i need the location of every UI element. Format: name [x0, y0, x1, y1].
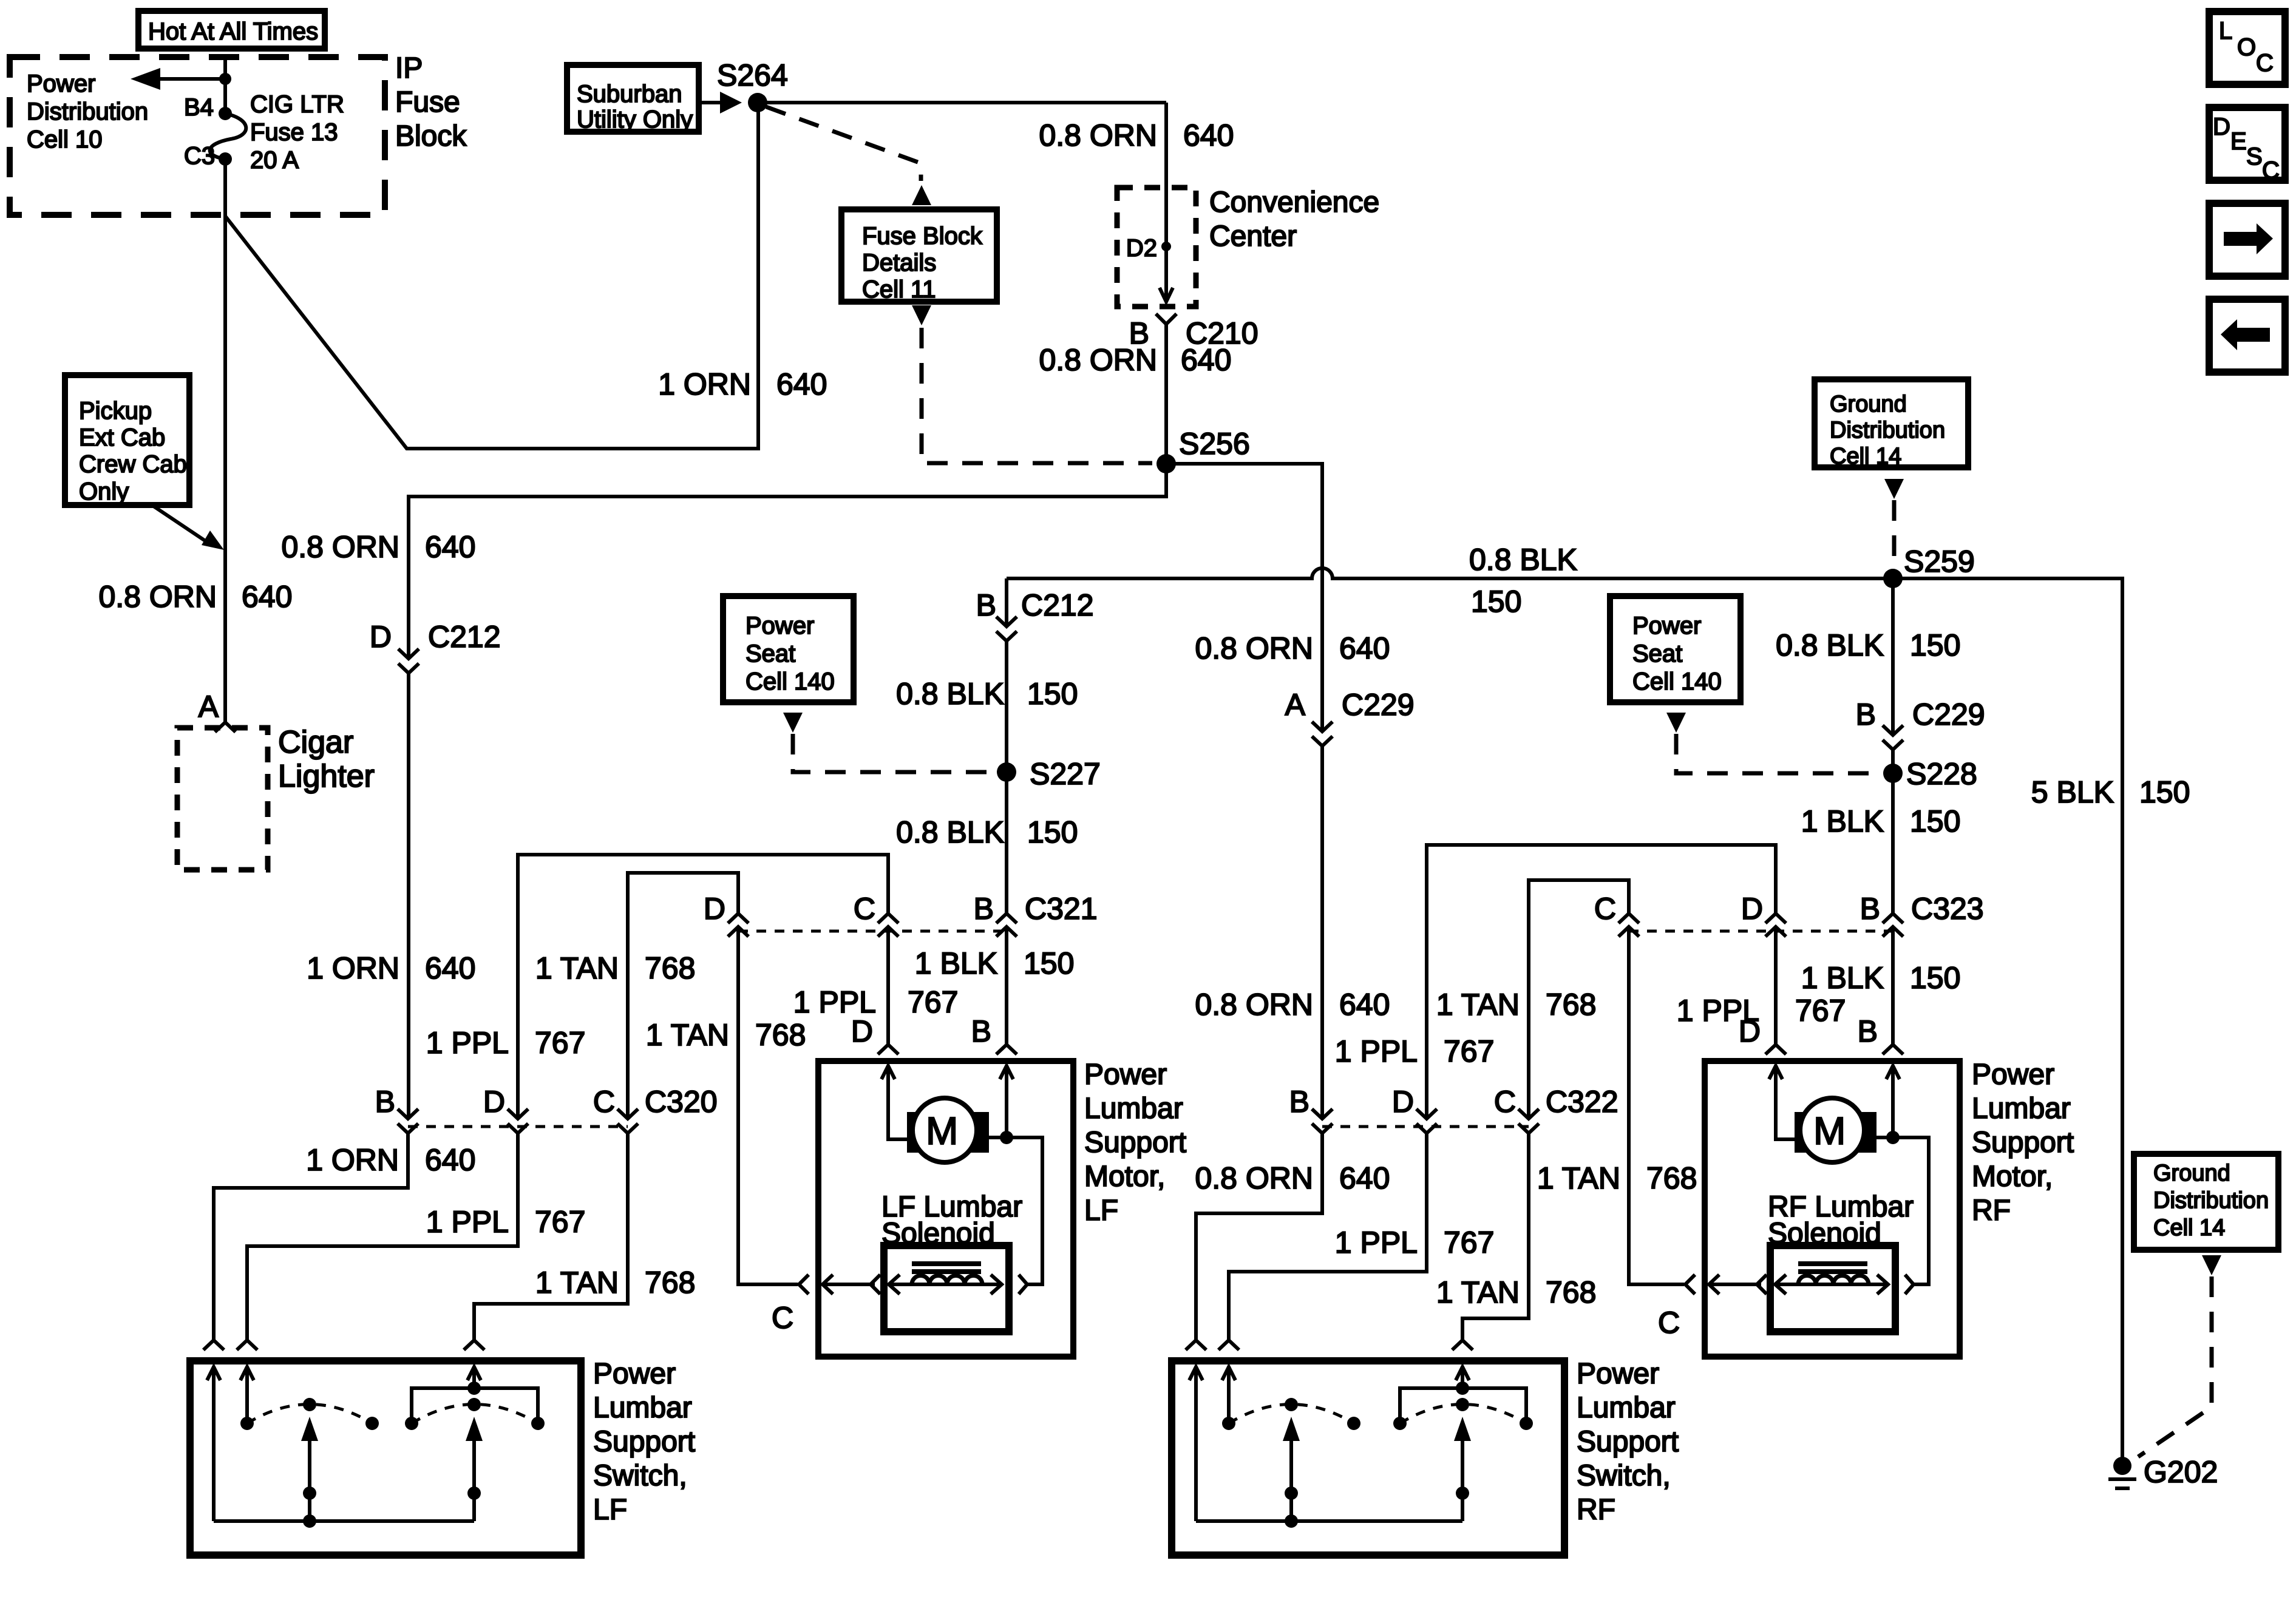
- wire pointer arrow to cigar wire: [154, 506, 207, 542]
- svg-text:768: 768: [1646, 1161, 1697, 1195]
- svg-text:Crew Cab: Crew Cab: [79, 451, 187, 478]
- label 0.8 BLK 150: [1776, 628, 1960, 662]
- wire S264 to convenience center: [758, 101, 1166, 104]
- wire motor B to solenoid right side: [987, 1137, 1042, 1284]
- box left arrow: [2209, 299, 2285, 372]
- svg-text:0.8 ORN: 0.8 ORN: [1039, 118, 1157, 152]
- svg-text:20 A: 20 A: [250, 147, 299, 174]
- svg-text:1 ORN: 1 ORN: [658, 367, 751, 401]
- svg-text:Support: Support: [1577, 1426, 1679, 1458]
- svg-text:B4: B4: [184, 94, 214, 121]
- solenoid core lines: [912, 1264, 981, 1272]
- svg-text:1 TAN: 1 TAN: [535, 1266, 619, 1300]
- wire dashed connector line C322: [1322, 1125, 1529, 1128]
- svg-text:C322: C322: [1546, 1085, 1618, 1119]
- svg-text:150: 150: [1027, 677, 1078, 711]
- node D2: [1161, 242, 1171, 251]
- svg-text:767: 767: [535, 1205, 585, 1239]
- connector motor RF pin D: [1765, 1045, 1786, 1054]
- svg-text:Seat: Seat: [1632, 640, 1682, 667]
- svg-text:767: 767: [1444, 1225, 1494, 1259]
- svg-text:768: 768: [1546, 988, 1596, 1022]
- solenoid core lines: [1798, 1264, 1867, 1272]
- connector C212 pin D: [398, 649, 419, 673]
- svg-text:Power: Power: [1577, 1358, 1659, 1390]
- connector C229 pin A: [1312, 722, 1333, 746]
- pin D entry arrow: [1769, 1066, 1782, 1079]
- connector C322 pin D: [1416, 1109, 1437, 1133]
- svg-text:LF: LF: [593, 1494, 627, 1526]
- svg-text:Cell 14: Cell 14: [1830, 444, 1901, 469]
- svg-text:Cell 140: Cell 140: [1632, 668, 1722, 695]
- svg-text:B: B: [974, 892, 994, 926]
- svg-text:640: 640: [1183, 118, 1234, 152]
- svg-text:1 TAN: 1 TAN: [1537, 1161, 1620, 1195]
- svg-text:Distribution: Distribution: [27, 98, 148, 125]
- left wiper arrow: [308, 1437, 311, 1493]
- pin D entry arrow: [881, 1066, 895, 1079]
- svg-text:B: B: [976, 588, 996, 622]
- wire dashed connector line C320: [408, 1125, 628, 1128]
- connector switch LF T3: [464, 1340, 484, 1350]
- label 1 ORN 640 (switch): [306, 1143, 475, 1177]
- connector switch RF T3: [1452, 1340, 1473, 1350]
- svg-text:Pickup: Pickup: [79, 398, 152, 424]
- svg-text:C: C: [854, 892, 875, 926]
- svg-text:640: 640: [1181, 343, 1231, 377]
- svg-text:B: B: [1856, 697, 1876, 731]
- svg-text:0.8 ORN: 0.8 ORN: [1195, 631, 1313, 665]
- connector switch RF T2: [1218, 1340, 1239, 1350]
- connector C229 pin B: [1883, 725, 1903, 750]
- svg-text:768: 768: [645, 1266, 695, 1300]
- label 1 BLK 150 (C321-B): [915, 946, 1075, 980]
- node reference arrow down (left seat): [783, 713, 803, 733]
- svg-text:1 TAN: 1 TAN: [1436, 988, 1520, 1022]
- svg-text:B: B: [1289, 1085, 1309, 1119]
- svg-text:E: E: [2230, 128, 2247, 155]
- connector C322 pin C: [1518, 1109, 1539, 1133]
- svg-text:Power: Power: [1632, 612, 1701, 639]
- svg-text:5 BLK: 5 BLK: [2031, 775, 2114, 809]
- svg-text:C: C: [593, 1085, 615, 1119]
- wire C323-D down to RF motor pin D: [1774, 927, 1778, 1045]
- wire C322-C down to RF switch T3: [1462, 1133, 1529, 1340]
- pin T2 arrow and wire to contact: [1222, 1367, 1235, 1380]
- svg-text:RF: RF: [1972, 1195, 2011, 1227]
- wire motor B to solenoid right side: [1874, 1137, 1929, 1284]
- node S228: [1883, 764, 1903, 783]
- node C3: [219, 152, 232, 166]
- box DESC: [2209, 107, 2285, 184]
- label 1 TAN 768 (C321-D): [646, 1018, 806, 1052]
- wire C322-D up over to C323-D: [1427, 845, 1776, 1119]
- svg-text:D: D: [2213, 114, 2230, 140]
- solenoid coil: [912, 1276, 982, 1285]
- wire C321-B down to LF motor pin B: [1005, 927, 1008, 1045]
- svg-text:Support: Support: [1972, 1127, 2074, 1159]
- connector C212 pin B: [996, 617, 1017, 641]
- svg-text:0.8 ORN: 0.8 ORN: [98, 580, 217, 614]
- svg-text:C: C: [1594, 892, 1616, 926]
- label fuse value: [250, 91, 344, 174]
- box Power Lumbar Support Motor RF: [1705, 1061, 1960, 1357]
- svg-text:D: D: [851, 1014, 873, 1048]
- svg-text:Block: Block: [395, 120, 467, 152]
- connector C320 pin D: [508, 1109, 528, 1133]
- svg-text:1 TAN: 1 TAN: [1436, 1275, 1520, 1309]
- svg-text:Switch,: Switch,: [1577, 1460, 1671, 1492]
- label 0.8 ORN 640 (RF switch): [1195, 1161, 1390, 1195]
- svg-text:B: B: [1860, 892, 1880, 926]
- connector C323 pin D: [1765, 914, 1786, 937]
- box right arrow: [2209, 203, 2285, 276]
- svg-text:LF: LF: [1084, 1195, 1118, 1227]
- svg-text:640: 640: [425, 530, 475, 564]
- svg-text:S228: S228: [1906, 757, 1977, 791]
- box Fuse Block Details Cell 11: [841, 209, 997, 303]
- label 1 PPL 767 (RF switch): [1335, 1225, 1495, 1259]
- svg-text:Lumbar: Lumbar: [1577, 1392, 1676, 1424]
- svg-text:D: D: [1392, 1085, 1414, 1119]
- label IP Fuse Block: [395, 52, 467, 152]
- svg-text:M: M: [1813, 1109, 1846, 1153]
- svg-text:D: D: [704, 892, 725, 926]
- svg-text:Power: Power: [1972, 1059, 2054, 1091]
- RF solenoid outline: [1770, 1246, 1895, 1332]
- label 1 ORN 640: [658, 367, 827, 401]
- svg-text:Hot At All Times: Hot At All Times: [148, 18, 318, 45]
- svg-text:Distribution: Distribution: [2153, 1188, 2269, 1213]
- label 1 TAN 768 (switch): [535, 1266, 696, 1300]
- svg-text:767: 767: [1444, 1034, 1494, 1068]
- svg-text:Support: Support: [593, 1426, 695, 1458]
- wire switch common bus: [214, 1519, 474, 1523]
- svg-text:C323: C323: [1911, 892, 1984, 926]
- svg-text:C212: C212: [1021, 588, 1094, 622]
- wire C322-C up over to C323-C: [1529, 880, 1629, 1119]
- solenoid coil: [1798, 1276, 1869, 1285]
- svg-text:1 ORN: 1 ORN: [306, 1143, 399, 1177]
- wire arrow into S264: [699, 101, 722, 104]
- wire C323-B down to RF motor pin B: [1891, 927, 1895, 1045]
- svg-text:C: C: [1494, 1085, 1516, 1119]
- wire down into convenience center D2: [1164, 103, 1168, 302]
- connector C320 pin C: [617, 1109, 638, 1133]
- svg-text:Lumbar: Lumbar: [593, 1392, 692, 1424]
- label 0.8 ORN 640: [1039, 118, 1234, 152]
- wire C229-B through S228 to C323-B: [1891, 750, 1895, 914]
- svg-text:D: D: [1741, 892, 1763, 926]
- label Power Lumbar Support Switch RF: [1577, 1358, 1679, 1526]
- label Cigar Lighter: [278, 725, 375, 794]
- wire S259 to C229 pin B: [1891, 578, 1895, 735]
- LF solenoid outline: [884, 1246, 1009, 1332]
- svg-text:640: 640: [242, 580, 292, 614]
- svg-text:RF: RF: [1577, 1494, 1615, 1526]
- svg-text:IP: IP: [395, 52, 423, 84]
- label 1 PPL 767 (C320-D upper): [426, 1026, 586, 1060]
- svg-text:A: A: [1285, 688, 1306, 722]
- wire dashed connector line C321: [738, 930, 1007, 933]
- svg-text:Ext Cab: Ext Cab: [79, 424, 165, 451]
- IP fuse block dashed outline: [10, 57, 385, 215]
- svg-text:767: 767: [535, 1026, 585, 1060]
- label 1 TAN 768 (C322-C upper): [1436, 988, 1597, 1022]
- svg-text:0.8 ORN: 0.8 ORN: [1195, 988, 1313, 1022]
- svg-text:S256: S256: [1179, 427, 1250, 461]
- node right rocker wiper point: [1456, 1398, 1469, 1411]
- wire dashed connector line C323: [1629, 930, 1893, 933]
- svg-text:Convenience: Convenience: [1209, 186, 1379, 219]
- label 1 TAN 768 (C320-C upper): [535, 951, 696, 985]
- svg-text:640: 640: [425, 1143, 475, 1177]
- label 1 PPL 767 (switch): [426, 1205, 586, 1239]
- wire C320-C up over to C321-D: [628, 873, 738, 1119]
- svg-text:Cell 140: Cell 140: [746, 668, 835, 695]
- wire dashed reference to S227: [793, 734, 994, 772]
- label 0.8 BLK 150: [896, 815, 1078, 849]
- svg-text:Lumbar: Lumbar: [1972, 1093, 2071, 1125]
- wire S256 to C212 pin D: [409, 464, 1166, 659]
- solenoid plunger double arrow: [1776, 1283, 1887, 1286]
- left rocker dashed arc: [1229, 1405, 1354, 1424]
- svg-text:D2: D2: [1126, 235, 1157, 262]
- right wiper arrow: [472, 1437, 476, 1493]
- connector solenoid left half-arrows: [799, 1275, 809, 1294]
- box Power Lumbar Support Switch RF: [1172, 1361, 1564, 1555]
- svg-text:640: 640: [1339, 631, 1390, 665]
- box Pickup Ext Cab Crew Cab Only: [65, 375, 189, 505]
- label 1 TAN 768 (C323-C): [1537, 1161, 1697, 1195]
- node reference arrow down: [912, 305, 931, 325]
- wire C323-C down to RF solenoid: [1629, 927, 1684, 1284]
- svg-text:Power: Power: [746, 612, 814, 639]
- label 1 PPL 767 (C321-C): [793, 985, 959, 1019]
- svg-text:1 PPL: 1 PPL: [1335, 1225, 1418, 1259]
- svg-text:C212: C212: [428, 620, 501, 654]
- svg-text:Power: Power: [593, 1358, 676, 1390]
- wire C321-C down to LF motor pin D: [886, 927, 890, 1045]
- node right rocker wiper point: [467, 1398, 481, 1411]
- svg-text:C229: C229: [1912, 697, 1985, 731]
- label Power Distribution Cell 10: [27, 70, 148, 153]
- svg-text:1 BLK: 1 BLK: [915, 946, 997, 980]
- solenoid plunger double arrow: [890, 1283, 1000, 1286]
- node right rocker contacts: [1393, 1417, 1407, 1430]
- label 1 PPL 767 (C322-D upper): [1335, 1034, 1495, 1068]
- svg-text:S: S: [2246, 143, 2263, 170]
- connector C323 pin C: [1618, 914, 1639, 937]
- node reference arrow down to S259: [1884, 479, 1904, 499]
- pin T1 arrow and feed wire: [1189, 1367, 1203, 1380]
- svg-text:150: 150: [1910, 628, 1960, 662]
- svg-text:A: A: [199, 690, 219, 724]
- label 1 TAN 768 (RF switch): [1436, 1275, 1597, 1309]
- svg-text:0.8 BLK: 0.8 BLK: [1469, 543, 1577, 577]
- box LOC: [2209, 12, 2285, 84]
- label 1 PPL 767 (C323-D): [1677, 994, 1846, 1028]
- connector C322 pin B: [1312, 1109, 1333, 1133]
- node feed junction: [219, 73, 231, 85]
- svg-text:150: 150: [1910, 961, 1960, 995]
- svg-text:1 PPL: 1 PPL: [426, 1026, 509, 1060]
- label 0.8 ORN 640: [1195, 631, 1390, 665]
- wire C320-B down to LF switch T1: [214, 1133, 408, 1340]
- svg-text:L: L: [2219, 18, 2232, 44]
- svg-text:C: C: [1658, 1306, 1680, 1340]
- svg-text:0.8 BLK: 0.8 BLK: [896, 677, 1004, 711]
- label RF Lumbar Solenoid: [1768, 1191, 1914, 1250]
- wire C320-D up over to C321-C: [518, 855, 888, 1119]
- svg-text:640: 640: [425, 951, 475, 985]
- svg-text:0.8 ORN: 0.8 ORN: [1039, 343, 1157, 377]
- connector C321 pin C: [878, 914, 898, 937]
- svg-text:Suburban: Suburban: [577, 81, 682, 107]
- svg-text:767: 767: [1795, 994, 1846, 1028]
- svg-text:Cell 10: Cell 10: [27, 126, 103, 153]
- pin T3 arrow and wire to bridge: [467, 1367, 481, 1380]
- svg-text:0.8 BLK: 0.8 BLK: [896, 815, 1004, 849]
- svg-text:Only: Only: [79, 478, 129, 505]
- right wiper arrow: [1461, 1437, 1464, 1493]
- label Power Lumbar Support Motor LF: [1084, 1059, 1186, 1227]
- svg-text:1 TAN: 1 TAN: [646, 1018, 729, 1052]
- fuse F13 CIG LTR 20A: [210, 114, 246, 159]
- connector switch LF T1: [203, 1340, 224, 1350]
- connector C320 pin B: [398, 1109, 418, 1133]
- wire C212-D down to C320-B: [407, 673, 410, 1119]
- wire C229-A down to C322-B: [1320, 746, 1324, 1119]
- wire C210 to S256: [1164, 324, 1168, 464]
- label Power Lumbar Support Switch LF: [593, 1358, 695, 1526]
- svg-text:C: C: [2256, 50, 2274, 76]
- svg-text:768: 768: [1546, 1275, 1596, 1309]
- connector switch LF T2: [237, 1340, 257, 1350]
- svg-text:C229: C229: [1342, 688, 1415, 722]
- pin T2 arrow and wire to contact: [240, 1367, 254, 1380]
- connector solenoid right half-arrow: [1019, 1275, 1027, 1294]
- svg-text:C: C: [2262, 157, 2280, 184]
- node reference arrow up: [912, 185, 931, 205]
- svg-text:Center: Center: [1209, 220, 1297, 253]
- svg-text:Fuse: Fuse: [395, 86, 460, 118]
- svg-text:S227: S227: [1030, 757, 1101, 791]
- label 1 ORN 640: [307, 951, 475, 985]
- wire fuse output down to cigar lighter: [223, 159, 227, 722]
- svg-text:150: 150: [1024, 946, 1074, 980]
- svg-text:Fuse 13: Fuse 13: [250, 119, 338, 146]
- wire ground bus left end to C212 pin B: [1005, 578, 1008, 626]
- node S259: [1883, 569, 1903, 588]
- pin B entry arrow: [1000, 1066, 1013, 1079]
- node right rocker contacts: [405, 1417, 418, 1430]
- svg-text:Seat: Seat: [746, 640, 795, 667]
- wire C322-D down to RF switch T2: [1229, 1133, 1427, 1340]
- node reference arrow down (right seat): [1666, 713, 1686, 733]
- box Power Lumbar Support Motor LF: [818, 1061, 1073, 1357]
- svg-text:Utility Only: Utility Only: [577, 106, 693, 133]
- box Suburban Utility Only: [567, 65, 699, 133]
- svg-text:M: M: [926, 1109, 958, 1153]
- connector solenoid right half-arrow: [1905, 1275, 1914, 1294]
- cigar lighter dashed outline: [177, 728, 268, 870]
- wire dashed reference to G202: [2138, 1276, 2212, 1457]
- svg-text:1 ORN: 1 ORN: [307, 951, 399, 985]
- svg-text:1 PPL: 1 PPL: [426, 1205, 509, 1239]
- box Power Seat Cell 140 (left): [723, 596, 854, 702]
- label 0.8 ORN 640: [98, 580, 292, 614]
- connector C321 pin D: [728, 914, 749, 937]
- connector motor RF pin B: [1883, 1045, 1903, 1054]
- connector C323 pin B: [1883, 914, 1903, 937]
- node reference arrow down to G202: [2202, 1255, 2221, 1275]
- label 1 BLK 150 (C323-B): [1801, 961, 1961, 995]
- svg-text:1 BLK: 1 BLK: [1801, 804, 1884, 838]
- wire S256 to C229 pin A: [1166, 464, 1322, 731]
- svg-text:0.8 ORN: 0.8 ORN: [281, 530, 399, 564]
- pin T1 arrow and feed wire: [207, 1367, 220, 1380]
- node S264: [748, 93, 767, 112]
- svg-text:1 BLK: 1 BLK: [1801, 961, 1884, 995]
- svg-text:Cell 14: Cell 14: [2153, 1215, 2225, 1241]
- svg-text:768: 768: [645, 951, 695, 985]
- svg-text:Power: Power: [1084, 1059, 1167, 1091]
- svg-text:Details: Details: [862, 249, 936, 276]
- node S227: [997, 762, 1016, 782]
- svg-text:1 PPL: 1 PPL: [1335, 1034, 1418, 1068]
- svg-text:768: 768: [755, 1018, 806, 1052]
- svg-text:B: B: [971, 1014, 991, 1048]
- svg-text:Ground: Ground: [1830, 392, 1907, 417]
- node motor-solenoid junction: [1886, 1131, 1900, 1144]
- motor M2 armature: [1795, 1098, 1877, 1162]
- label 0.8 ORN 640: [281, 530, 475, 564]
- node G202 ground: [2108, 1455, 2218, 1489]
- left wiper arrow: [1289, 1437, 1293, 1493]
- connector switch RF T1: [1186, 1340, 1206, 1350]
- svg-text:S259: S259: [1904, 544, 1975, 578]
- box Hot At All Times: [138, 11, 325, 49]
- connector motor LF pin D: [878, 1045, 898, 1054]
- motor M1 armature: [907, 1098, 989, 1162]
- wire C212-B through S227 to C321-B: [1005, 641, 1008, 914]
- wire dashed reference to S228: [1676, 734, 1881, 773]
- svg-text:0.8 BLK: 0.8 BLK: [1776, 628, 1884, 662]
- svg-text:Fuse Block: Fuse Block: [862, 223, 983, 249]
- wire dashed reference to S256: [922, 328, 1152, 463]
- svg-text:150: 150: [1027, 815, 1078, 849]
- svg-text:B: B: [375, 1085, 395, 1119]
- right rocker dashed arc: [412, 1405, 538, 1424]
- wire feed from hot bus into fuse: [223, 57, 227, 114]
- svg-text:B: B: [1858, 1014, 1878, 1048]
- connector motor LF pin B: [996, 1045, 1017, 1054]
- node S256: [1156, 454, 1176, 473]
- label Convenience Center: [1209, 186, 1379, 253]
- svg-text:Lighter: Lighter: [278, 759, 375, 794]
- connector solenoid left half-arrows: [1685, 1275, 1695, 1294]
- node left rocker contacts: [1222, 1417, 1235, 1430]
- label 5 BLK 150: [2031, 775, 2190, 809]
- svg-text:Ground: Ground: [2153, 1161, 2230, 1186]
- wire branch diagonal to S264 net: [225, 103, 758, 449]
- connector cigar lighter pin A: [215, 722, 236, 732]
- svg-text:D: D: [1739, 1014, 1761, 1048]
- svg-text:150: 150: [1471, 585, 1521, 619]
- wire dashed reference to S259: [1892, 500, 1897, 566]
- svg-text:Motor,: Motor,: [1972, 1161, 2053, 1193]
